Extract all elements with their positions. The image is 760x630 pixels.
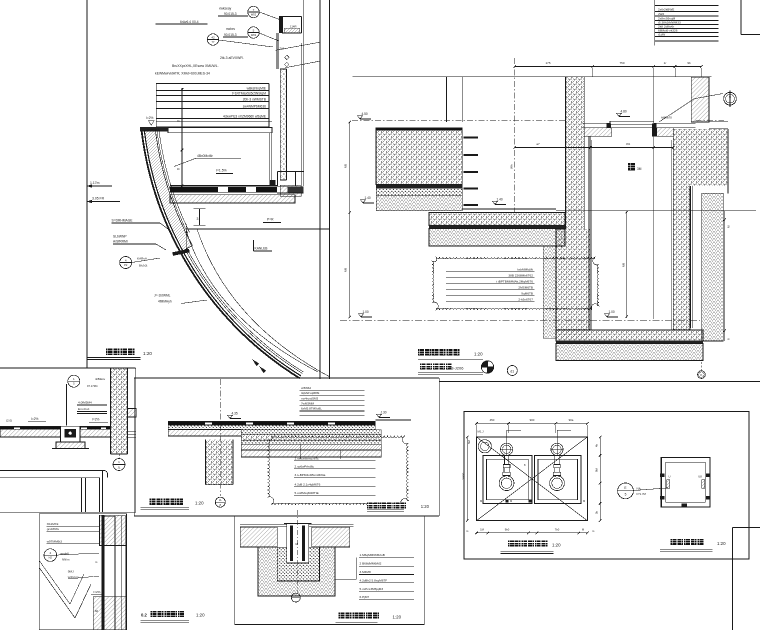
region divider bottom-left [0, 367, 136, 369]
svg-text:0.2: 0.2 [141, 613, 147, 618]
svg-text:NN/m: NN/m [62, 558, 70, 562]
svg-text:6xM5.8TM9u9L: 6xM5.8TM9u9L [301, 407, 322, 411]
svg-text:8: 8 [177, 120, 181, 122]
right wall above ground [691, 77, 709, 122]
steel channel section [282, 16, 302, 18]
detail separator verticals [319, 0, 321, 379]
backfill herr strip left of sump wall [543, 246, 556, 338]
svg-text:1:20: 1:20 [474, 352, 483, 357]
corner circle [478, 440, 491, 453]
sump inner vdim [626, 211, 628, 318]
note box top [299, 389, 364, 391]
callout rows right [359, 557, 414, 559]
svg-text:1:20: 1:20 [421, 504, 430, 509]
bubble 7/W02 [248, 6, 259, 17]
svg-text:2 B68dMM6tM2: 2 B68dMM6tM2 [360, 562, 382, 566]
svg-text:90.015-3: 90.015-3 [224, 12, 237, 16]
sheet title block corner [732, 527, 734, 630]
svg-text:3qM2rxqM86t: 3qM2rxqM86t [301, 391, 320, 395]
svg-text:w9TMM6t3: w9TMM6t3 [47, 540, 63, 544]
svg-text:M: M [583, 499, 585, 503]
layer callout box [156, 84, 268, 128]
lower dashdot line [340, 319, 700, 321]
sheet corner top-right [740, 0, 742, 35]
svg-text:4fMMHyh: 4fMMHyh [158, 300, 172, 304]
dim extension long [653, 68, 655, 319]
pool revision cloud + notes [432, 257, 599, 310]
svg-text:4%: 4% [626, 142, 631, 146]
sump floor + slab [590, 329, 673, 331]
svg-text:W02: W02 [251, 33, 257, 37]
inner face curve 2 [197, 229, 330, 377]
svg-text:6.PjM7: 6.PjM7 [360, 595, 370, 599]
svg-text:sw4NMP6M636: sw4NMP6M636 [243, 104, 266, 108]
long divider line right [439, 381, 760, 383]
svg-text:4.0fM5M4: 4.0fM5M4 [78, 401, 92, 405]
svg-text:P2: P2 [124, 263, 128, 267]
svg-text:P=R: P=R [267, 218, 274, 222]
buried pipe detail box [235, 516, 425, 625]
big X [477, 437, 588, 521]
right herringbone band [702, 193, 723, 341]
section bubble below column [118, 454, 120, 458]
right wall mass upper [673, 129, 728, 186]
section bubble JL [215, 497, 225, 507]
svg-text:03-J206: 03-J206 [449, 366, 464, 371]
L bracket right [128, 409, 137, 418]
title: node detail [106, 349, 112, 356]
svg-text:2MSM6TB: 2MSM6TB [518, 285, 533, 289]
svg-text:5.xxPcx3M5jqM3: 5.xxPcx3M5jqM3 [360, 587, 384, 591]
svg-text:4.2d8 2.1x4qM6T6: 4.2d8 2.1x4qM6T6 [295, 483, 321, 487]
svg-text:3.05 FR: 3.05 FR [92, 197, 105, 201]
svg-text:kxkMMfcMt: kxkMMfcMt [517, 267, 533, 271]
svg-text:1:20: 1:20 [143, 351, 152, 356]
svg-text:9qM6TB: 9qM6TB [521, 291, 533, 295]
right membrane [690, 186, 692, 328]
basin floor [462, 208, 556, 210]
title buried pipe [339, 613, 345, 619]
svg-text:m: m [683, 504, 685, 507]
pump frame [464, 412, 749, 559]
svg-text:J=-1btWML: J=-1btWML [154, 294, 171, 298]
level mark deck [227, 415, 232, 418]
label pool [628, 163, 635, 170]
svg-text:2M00: 2M00 [462, 472, 466, 480]
svg-text:9b: 9b [687, 61, 691, 65]
V break lines [40, 568, 76, 618]
svg-text:2tk-3 aEVXWR.: 2tk-3 aEVXWR. [220, 56, 244, 60]
leader vline from bubble [66, 384, 68, 426]
frame right vline lower-left [135, 368, 137, 512]
svg-text:1.00: 1.00 [363, 310, 369, 314]
deck column [206, 440, 234, 485]
floor dark band [170, 185, 277, 187]
dark wall line [102, 515, 105, 630]
svg-text:9b0: 9b0 [505, 528, 510, 532]
bubble 4/P2 [120, 257, 132, 269]
seats [584, 128, 612, 137]
svg-text:1:20: 1:20 [393, 615, 402, 620]
svg-text:xr8t66d: xr8t66d [301, 386, 311, 390]
svg-text:1:20: 1:20 [195, 501, 204, 506]
post verticals [276, 33, 278, 69]
dims pump plan [477, 422, 588, 424]
left thin wall above ground [446, 77, 448, 122]
svg-text:1.M6qMM66t52uB: 1.M6qMM66t52uB [360, 553, 385, 557]
svg-text:xwkseay: xwkseay [219, 7, 232, 11]
coping dark [140, 127, 168, 132]
ladder rungs [463, 137, 478, 139]
slope arrows at curve foot [252, 359, 259, 366]
svg-text:Em-0xvt: Em-0xvt [78, 407, 89, 411]
svg-text:20h-3 xWMSTB: 20h-3 xWMSTB [243, 97, 267, 101]
svg-text:(2.0): (2.0) [6, 419, 12, 423]
svg-text:450: 450 [490, 418, 495, 422]
inner face curve 1 [187, 232, 319, 372]
floor hatch strip [170, 195, 295, 203]
catch basin [61, 426, 81, 442]
svg-text:M: M [510, 499, 512, 503]
svg-text:4dxwPtc3 xXZM966t/ w5qME: 4dxwPtc3 xXZM966t/ w5qME [223, 114, 267, 118]
centerline deck [220, 379, 222, 496]
svg-text:1r: 1r [664, 61, 667, 65]
svg-text:M8: M8 [622, 263, 626, 267]
low wall box [39, 514, 126, 630]
svg-text:3.M4M8: 3.M4M8 [360, 570, 371, 574]
inner squares [483, 455, 532, 503]
svg-text:90a: 90a [569, 418, 574, 422]
title small cover plan [671, 539, 677, 545]
svg-text:1.xxfcxxbxxy.rbTc: 1.xxfcxxbxxy.rbTc [295, 456, 319, 460]
hatch bands [240, 527, 277, 547]
svg-text:U8: U8 [698, 475, 702, 479]
valve assembly at 506.6 [501, 443, 513, 455]
section bubble right K [700, 362, 702, 371]
svg-text:2x6r2kBWE: 2x6r2kBWE [658, 7, 674, 11]
frame bottom lower-left [0, 511, 136, 513]
bolt diamonds [285, 55, 290, 60]
svg-text:t1dW: t1dW [658, 33, 665, 37]
svg-text:a7: a7 [536, 142, 540, 146]
svg-text:A/SfRRMr: A/SfRRMr [113, 240, 129, 244]
svg-text:97.17M4: 97.17M4 [87, 384, 98, 388]
right ledge/step [278, 171, 304, 173]
left wall mass block [376, 128, 462, 185]
bubble 5/W02 [248, 27, 259, 38]
basin slab [429, 213, 565, 226]
svg-text:M5: M5 [344, 164, 348, 168]
section target bubble right [724, 92, 737, 105]
left wall membrane+base [376, 185, 462, 189]
svg-text:4r8tEsv: 4r8tEsv [95, 377, 106, 381]
level markers pool [357, 116, 362, 119]
rim beam under box [156, 121, 272, 123]
svg-text:5b: 5b [595, 511, 599, 514]
liner curves lower [185, 250, 302, 374]
svg-text:4.80: 4.80 [621, 109, 627, 113]
svg-text:8: 8 [177, 168, 181, 170]
svg-text:W02: W02 [251, 12, 257, 16]
svg-text:175: 175 [545, 61, 550, 65]
inner bars [667, 480, 670, 489]
svg-text:I=2%: I=2% [31, 417, 39, 421]
svg-text:114R: 114R [290, 25, 296, 29]
leaders to post [259, 12, 281, 20]
sump cavity liner [591, 140, 593, 330]
svg-text:gcxM63v: gcxM63v [47, 527, 60, 531]
title fountain detail [418, 349, 424, 355]
svg-text:1.00: 1.00 [609, 310, 615, 314]
svg-text:I=2%: I=2% [93, 590, 100, 594]
svg-text:I=1.5%: I=1.5% [216, 169, 227, 173]
right paving line [696, 121, 728, 123]
middle wall [565, 77, 584, 229]
bubble 42/77 [207, 34, 218, 45]
svg-text:I=2%: I=2% [146, 116, 154, 120]
ground dashdot left [352, 120, 565, 122]
svg-text:7b0: 7b0 [555, 528, 560, 532]
right wall lower [673, 186, 690, 330]
svg-text:hM0a70: hM0a70 [661, 116, 672, 120]
svg-text:t tBPTBMMMAk,2MqM6T6: t tBPTBMMMAk,2MqM6T6 [496, 279, 533, 283]
svg-text:U: U [669, 475, 671, 479]
svg-text:M: M [480, 499, 482, 503]
svg-text:900: 900 [530, 418, 535, 422]
svg-text:2.xp6wPrhd6c: 2.xp6wPrhd6c [295, 465, 315, 469]
svg-text:bS1MXk: bS1MXk [47, 522, 59, 526]
paving band lower-left [0, 425, 110, 427]
title deck drain [150, 499, 156, 505]
bubble 4/H2 [44, 549, 57, 562]
svg-text:38B 2268Mb6T62: 38B 2268Mb6T62 [508, 273, 533, 277]
svg-text:wBkshtrqMtE: wBkshtrqMtE [247, 86, 267, 90]
sheet border left [86, 0, 88, 368]
north/target circle [481, 361, 493, 373]
svg-text:nwbxv: nwbxv [226, 27, 235, 31]
inner dashed [666, 462, 705, 502]
svg-text:SLbWNP: SLbWNP [113, 235, 127, 239]
svg-text:90.015-3: 90.015-3 [224, 33, 237, 37]
sump left wall lower [556, 229, 590, 339]
svg-text:1:20: 1:20 [196, 613, 205, 618]
title low wall [151, 611, 157, 617]
pipe centerline [297, 510, 299, 593]
svg-text:2-k9x6T67: 2-k9x6T67 [518, 297, 533, 301]
cover plate [583, 122, 696, 124]
ground lines [240, 524, 354, 526]
inner dim [515, 147, 674, 149]
right wall line [303, 0, 305, 186]
gravel column [280, 69, 286, 180]
bubble 1/5 [68, 375, 80, 387]
svg-text:M8: M8 [344, 268, 348, 272]
svg-text:BruXXpxXHL,XEsww XMUWL.: BruXXpxXHL,XEsww XMUWL. [172, 64, 219, 68]
kerb verticals [81, 478, 83, 513]
deck left part layers [168, 420, 375, 422]
valve assembly at 557.0 [551, 443, 563, 455]
svg-text:I=2%: I=2% [92, 418, 100, 422]
svg-text:4Bx0Mct6r: 4Bx0Mct6r [197, 154, 214, 158]
small cover plan [661, 458, 710, 507]
svg-text:kEWMwrvktATR, XMvt+600,MES-34: kEWMwrvktATR, XMvt+600,MES-34 [155, 72, 210, 76]
paving right of column [128, 430, 136, 432]
title deck construction [367, 503, 373, 509]
svg-text:1:20: 1:20 [552, 543, 561, 548]
note stack top-right [654, 0, 656, 46]
membrane heavy arcs outer [142, 131, 300, 378]
membrane under hatch [240, 546, 277, 548]
deck surface right thin [375, 418, 411, 420]
svg-text:4b: 4b [595, 444, 599, 447]
deck right sandwich [241, 430, 381, 435]
svg-text:J.30: J.30 [381, 410, 387, 414]
base dark + hatch right [270, 180, 276, 186]
svg-text:JL: JL [118, 466, 121, 470]
plan outer rect [477, 437, 588, 521]
svg-text:8d: 8d [95, 609, 99, 613]
top dimension line [515, 66, 702, 68]
svg-text:vWd: vWd [658, 12, 664, 16]
svg-text:E: E [624, 486, 626, 490]
svg-text:1.17m: 1.17m [90, 181, 100, 185]
title pump cover plan [508, 541, 514, 547]
svg-text:M1.J: M1.J [478, 430, 485, 434]
svg-text:h?1.7M: h?1.7M [637, 492, 647, 496]
right dim vline [724, 211, 726, 342]
curved wall hatched band [144, 129, 192, 251]
svg-text:5.co8MxqM28TtE: 5.co8MxqM28TtE [295, 491, 319, 495]
svg-text:4.50: 4.50 [362, 112, 368, 116]
leader bubble small plan [618, 483, 634, 499]
svg-text:JL: JL [219, 498, 222, 502]
middle frame [134, 377, 439, 379]
svg-text:7wM3MM: 7wM3MM [301, 402, 315, 406]
left dim [181, 88, 183, 186]
pipe [287, 523, 309, 563]
diagonal leaders right [275, 42, 320, 50]
svg-text:H2: H2 [49, 556, 53, 560]
svg-text:750: 750 [619, 61, 624, 65]
deck leaders vertical [299, 444, 301, 459]
svg-text:S=DRHMAGE: S=DRHMAGE [112, 219, 134, 223]
trench herringbone U [258, 547, 335, 596]
svg-text:1.40: 1.40 [497, 197, 503, 201]
svg-text:4.2d8h2 5.8xqM6TF: 4.2d8h2 5.8xqM6TF [360, 578, 388, 582]
section circle below pipe [291, 593, 300, 602]
bottom hatch block [93, 597, 126, 630]
svg-text:1: 1 [729, 101, 731, 105]
top hatch block [100, 515, 127, 545]
svg-text:KANLEB: KANLEB [255, 247, 269, 251]
edge cleats [660, 474, 665, 478]
svg-text:74J: 74J [280, 47, 285, 51]
trench concrete fill [277, 547, 319, 581]
post cap dark [279, 16, 283, 33]
svg-text:3.t+BPM4x4BxmMt6ta: 3.t+BPM4x4BxmMt6ta [295, 473, 326, 477]
right column lower-left [111, 368, 128, 454]
svg-text:KARvA: KARvA [137, 257, 148, 261]
pool top line [352, 76, 711, 78]
svg-text:5: 5 [625, 493, 627, 497]
svg-text:BhJr2t: BhJr2t [139, 264, 148, 268]
section bubble left [507, 366, 517, 376]
cloud middle [268, 436, 409, 505]
svg-text:t=1RTMax5s5c5NStqM: t=1RTMax5s5c5NStqM [232, 91, 266, 95]
wall strips [89, 514, 91, 630]
svg-text:6rAv6.4 X0-4: 6rAv6.4 X0-4 [180, 20, 199, 24]
black cap fitting [172, 249, 189, 256]
svg-text:3: 3 [197, 217, 199, 221]
svg-text:Wh: Wh [510, 164, 514, 169]
centerline pool [514, 58, 516, 213]
left dim vline [349, 122, 351, 317]
kerb lines [0, 470, 104, 472]
small corner marks [505, 499, 508, 502]
svg-text:K: K [700, 373, 702, 377]
svg-text:9MJ: 9MJ [68, 570, 74, 574]
svg-text:3M: 3M [637, 167, 642, 171]
svg-text:1.40: 1.40 [365, 196, 371, 200]
leader to bubble right [659, 99, 694, 122]
svg-text:mx4rcxd5M3: mx4rcxd5M3 [301, 396, 319, 400]
svg-text:4.35: 4.35 [232, 411, 238, 415]
svg-text:1:20: 1:20 [717, 541, 726, 546]
svg-text:42: 42 [211, 35, 215, 39]
finish layer curves upper [157, 129, 188, 234]
svg-text:d1: d1 [510, 369, 514, 373]
leader to callouts [335, 578, 356, 580]
